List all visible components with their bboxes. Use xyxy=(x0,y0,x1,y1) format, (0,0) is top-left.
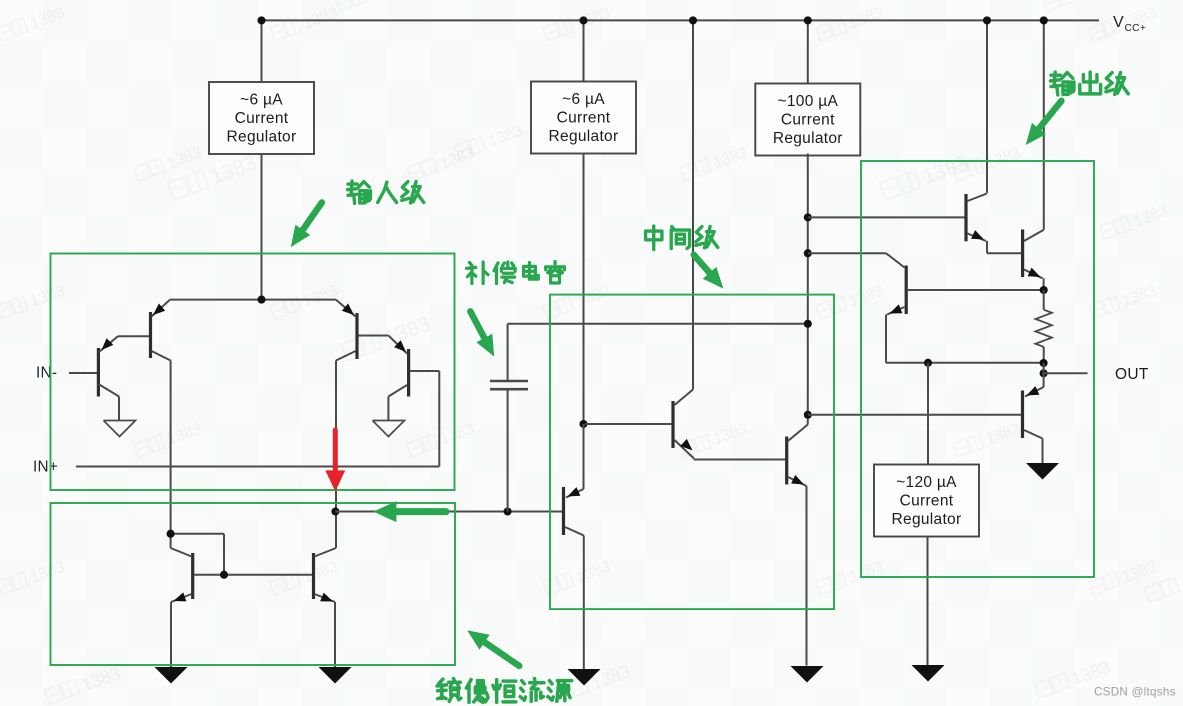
transistor Q1 (PNP, IN- input) xyxy=(98,336,150,420)
wire node A to Q7 base xyxy=(335,511,562,513)
wire Q6m collector to node A xyxy=(335,512,337,549)
green arrow: mirror label xyxy=(467,630,519,666)
svg-text:1383: 1383 xyxy=(1120,282,1159,310)
svg-text:~100 µA: ~100 µA xyxy=(778,93,839,110)
wire Q11 emitter rail xyxy=(886,362,1044,364)
green arrow: middle stage xyxy=(694,255,724,289)
transistor Q8 (NPN, middle stage output) xyxy=(787,425,808,487)
red arrow (tail current into mirror) xyxy=(325,430,345,491)
svg-text:V: V xyxy=(1113,14,1124,31)
annotation box: mirror current source xyxy=(51,503,456,665)
annotation box: input stage xyxy=(51,254,455,491)
ground GND1 (Q1 collector) xyxy=(104,421,136,437)
current regulator U1 ~6uA xyxy=(209,82,314,154)
svg-text:~120 µA: ~120 µA xyxy=(896,474,957,491)
node rail-U3 xyxy=(804,16,812,24)
svg-text:IN-: IN- xyxy=(36,365,57,382)
wire C1 top to Q8 collector node xyxy=(508,323,808,325)
node Q6 base / Q7 emitter xyxy=(579,420,587,428)
label OUT xyxy=(1115,366,1149,383)
svg-text:1383: 1383 xyxy=(366,0,405,3)
node U3-C1 tap xyxy=(804,320,812,328)
svg-text:1383: 1383 xyxy=(28,282,67,310)
svg-text:1383: 1383 xyxy=(1131,202,1170,230)
wire Q9 collector riser xyxy=(986,20,988,193)
node Q5 collector tie xyxy=(167,530,175,538)
svg-text:1383: 1383 xyxy=(301,558,340,586)
node U3-Q8 collector tap xyxy=(804,411,812,419)
transistor Q7 (PNP, middle stage input) xyxy=(564,424,584,536)
node mirror base rail xyxy=(220,571,228,579)
svg-text:1383: 1383 xyxy=(1074,0,1113,3)
wire regulator U3 feed xyxy=(807,20,809,83)
transistor Q5 (NPN mirror, diode-connected) xyxy=(171,548,193,667)
wire U1 to input pair xyxy=(261,154,263,300)
node rail-U1 xyxy=(257,16,265,24)
green arrow: compensation cap xyxy=(470,311,494,356)
transistor Q2 (PNP, left of diff pair) xyxy=(151,300,171,361)
label VCC+ xyxy=(1113,14,1146,34)
svg-text:Regulator: Regulator xyxy=(773,130,843,147)
wire IN+ to Q4 base xyxy=(76,466,439,468)
label IN+ xyxy=(33,459,58,476)
green arrow: output stage xyxy=(1026,101,1062,145)
wire mirror base rail xyxy=(194,574,312,576)
power VEE1 (Q5 emitter) xyxy=(155,667,188,684)
svg-text:Current: Current xyxy=(781,112,835,129)
label 中间级 (intermediate stage) xyxy=(646,226,718,249)
svg-text:1383: 1383 xyxy=(382,313,434,351)
label 输出级 (output stage) xyxy=(1051,72,1129,95)
svg-text:1383: 1383 xyxy=(847,4,886,32)
wire Q6 emitter to Q8 base xyxy=(694,459,785,460)
wire OUT stub xyxy=(1044,363,1088,373)
transistor Q3 (PNP, right of diff pair) xyxy=(336,300,389,361)
wire Q7 collector to VEE xyxy=(583,536,585,670)
transistor Q6m (NPN mirror output) xyxy=(314,548,337,667)
wire Q5 base tie xyxy=(171,534,224,575)
svg-text:~6 µA: ~6 µA xyxy=(240,92,283,109)
svg-text:1383: 1383 xyxy=(1120,558,1159,586)
wire U3 to output column xyxy=(807,154,809,415)
svg-text:IN+: IN+ xyxy=(33,459,58,476)
svg-text:1383: 1383 xyxy=(1069,657,1113,689)
svg-text:1383: 1383 xyxy=(574,4,613,32)
wire U4 feed xyxy=(927,363,929,465)
node U4 tap xyxy=(924,359,932,367)
svg-text:Regulator: Regulator xyxy=(892,511,962,528)
svg-text:1383: 1383 xyxy=(79,663,123,695)
wire VCC+ top rail xyxy=(262,19,1100,21)
wire Q2 collector to mirror xyxy=(170,361,172,549)
svg-text:1383: 1383 xyxy=(711,420,750,448)
svg-text:1383: 1383 xyxy=(301,4,340,32)
power VEE2 (Q6m emitter) xyxy=(319,667,352,684)
svg-text:1383: 1383 xyxy=(589,661,633,693)
watermark CSDN @ltqshs xyxy=(1094,686,1176,699)
svg-text:1383: 1383 xyxy=(711,144,750,172)
svg-text:1383: 1383 xyxy=(165,144,204,172)
svg-text:1383: 1383 xyxy=(301,282,340,310)
svg-text:1383: 1383 xyxy=(28,558,67,586)
node input emitter rail xyxy=(257,296,265,304)
power VEE4 (Q8 emitter) xyxy=(791,666,824,683)
label 镜像恒流源 (mirror current source) xyxy=(437,679,572,703)
svg-text:1383: 1383 xyxy=(574,558,613,586)
node rail-U2 xyxy=(579,16,587,24)
wire U4 to VEE xyxy=(927,537,929,666)
svg-text:1383: 1383 xyxy=(847,282,886,310)
node A (mirror output / comp node) xyxy=(331,507,339,515)
label IN- xyxy=(36,365,57,382)
wire regulator U2 feed xyxy=(583,20,585,81)
wire IN- to Q1 base xyxy=(69,372,97,374)
wire Q8 emitter to VEE xyxy=(806,486,808,666)
svg-text:1383: 1383 xyxy=(574,282,613,310)
node rail-Q9 xyxy=(983,16,991,24)
node R1 bottom xyxy=(1040,359,1048,367)
power VEE3 (Q7 collector) xyxy=(568,669,601,686)
node rail-Q6 xyxy=(689,16,697,24)
svg-text:1383: 1383 xyxy=(920,152,972,190)
svg-text:OUT: OUT xyxy=(1115,366,1149,383)
svg-text:1383: 1383 xyxy=(208,152,260,190)
svg-text:1383: 1383 xyxy=(438,420,477,448)
green arrow: input stage xyxy=(291,203,322,248)
svg-text:1383: 1383 xyxy=(984,144,1023,172)
wire regulator U1 feed xyxy=(261,20,263,82)
wire Q8 collector riser xyxy=(807,415,809,425)
transistor Q10 (NPN, output source) xyxy=(1023,230,1044,291)
wire Q3 collector to mirror node xyxy=(335,361,337,512)
transistor Q12 (PNP, output sink) xyxy=(808,373,1044,463)
wire input pair emitter rail xyxy=(170,299,336,301)
current regulator U3 ~100uA xyxy=(755,84,860,156)
current regulator U4 ~120uA xyxy=(874,465,979,537)
power VEE5 (U4 return) xyxy=(912,665,945,682)
node rail-Q10 xyxy=(1040,16,1048,24)
annotation box: middle stage xyxy=(550,295,834,609)
wire Q6 collector riser xyxy=(692,20,694,389)
node C1 bottom tap xyxy=(504,507,512,515)
resistor R1 (output emitter resistor) xyxy=(1036,290,1052,364)
svg-text:~6 µA: ~6 µA xyxy=(562,91,605,108)
capacitor C1 (compensation) xyxy=(490,324,528,512)
green arrow into node A xyxy=(373,501,446,522)
svg-text:Regulator: Regulator xyxy=(227,128,297,145)
transistor Q11 (NPN, output bias, left-facing) xyxy=(808,253,1044,363)
svg-text:CSDN @ltqshs: CSDN @ltqshs xyxy=(1094,686,1176,699)
node U3-Q11 collector tap xyxy=(804,249,812,257)
svg-text:Regulator: Regulator xyxy=(549,128,619,145)
wire Q10 collector riser xyxy=(1043,20,1045,229)
svg-text:1383: 1383 xyxy=(28,4,67,32)
transistor Q6 (NPN, middle gain stage) xyxy=(585,390,694,459)
node U3-Q9 base tap xyxy=(804,213,812,221)
svg-text:1383: 1383 xyxy=(1179,561,1183,593)
svg-text:Current: Current xyxy=(235,110,289,127)
svg-text:Current: Current xyxy=(900,493,954,510)
node OUT xyxy=(1040,369,1048,377)
svg-text:1383: 1383 xyxy=(847,558,886,586)
svg-text:1383: 1383 xyxy=(486,122,525,150)
label 补偿电容 (compensation capacitor) xyxy=(466,261,564,283)
current regulator U2 ~6uA xyxy=(531,82,636,154)
svg-text:Current: Current xyxy=(557,110,611,127)
power VEE6 (Q12 collector) xyxy=(1026,463,1059,480)
transistor Q4 (PNP, IN+ input) xyxy=(388,336,439,467)
label 输入级 (input stage) xyxy=(348,181,424,203)
ground GND2 (Q4 collector) xyxy=(373,421,405,437)
svg-text:1383: 1383 xyxy=(984,420,1023,448)
node R1 top xyxy=(1040,286,1048,294)
transistor Q9 (NPN, output darlington driver) xyxy=(808,194,1021,254)
svg-text:CC+: CC+ xyxy=(1125,23,1147,34)
wire U2 to middle stage xyxy=(583,154,585,425)
annotation box: output stage xyxy=(861,161,1094,577)
